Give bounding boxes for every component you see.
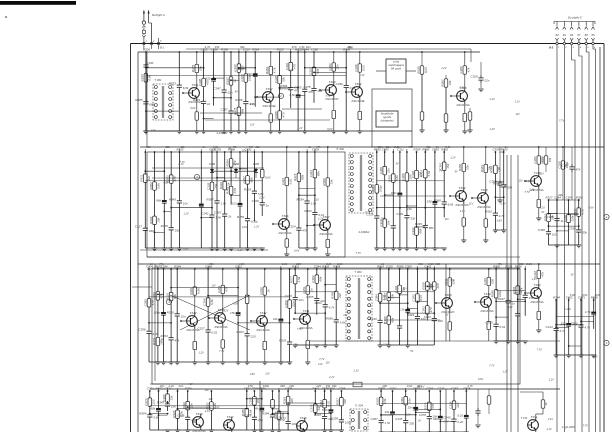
svg-text:C336: C336 <box>354 64 358 72</box>
svg-text:68k: 68k <box>156 199 161 203</box>
svg-text:33k: 33k <box>558 193 563 197</box>
svg-text:7,7V: 7,7V <box>151 129 156 132</box>
svg-text:4,7k: 4,7k <box>205 45 211 49</box>
svg-text:F_gd,1000: F_gd,1000 <box>562 425 575 429</box>
svg-text:R319: R319 <box>219 182 223 190</box>
svg-text:1,5k: 1,5k <box>311 202 317 206</box>
svg-text:C347: C347 <box>214 87 222 91</box>
svg-text:33k: 33k <box>410 216 415 220</box>
svg-text:T317: T317 <box>226 415 233 419</box>
svg-text:T 301: T 301 <box>154 78 162 82</box>
svg-text:2SC633A: 2SC633A <box>476 205 490 209</box>
svg-text:7,7V: 7,7V <box>325 95 330 98</box>
svg-text:10k: 10k <box>432 414 437 418</box>
svg-text:470: 470 <box>151 300 155 305</box>
svg-text:Rx/light A: Rx/light A <box>152 13 165 17</box>
svg-text:C340: C340 <box>240 74 244 82</box>
svg-text:5,6k: 5,6k <box>445 145 451 149</box>
svg-text:6,8k: 6,8k <box>197 288 201 294</box>
svg-text:R376: R376 <box>161 224 169 228</box>
svg-text:T309: T309 <box>458 186 465 190</box>
svg-text:33k: 33k <box>426 145 431 149</box>
svg-text:0,01: 0,01 <box>500 325 506 329</box>
svg-text:4,7k: 4,7k <box>273 67 277 73</box>
svg-text:68k: 68k <box>209 262 214 266</box>
svg-text:7,7V: 7,7V <box>449 280 454 283</box>
svg-text:C327: C327 <box>308 67 312 75</box>
svg-text:330: 330 <box>343 399 347 404</box>
svg-text:R364: R364 <box>161 334 169 338</box>
svg-text:1,1V: 1,1V <box>489 97 495 101</box>
svg-text:C376: C376 <box>310 404 314 412</box>
svg-text:R329: R329 <box>244 188 252 192</box>
svg-text:10n: 10n <box>160 384 165 388</box>
svg-text:0,01: 0,01 <box>526 262 532 266</box>
svg-text:5,6k: 5,6k <box>258 192 264 196</box>
svg-text:R364: R364 <box>252 48 259 52</box>
svg-text:64: 64 <box>555 33 559 37</box>
svg-text:C314: C314 <box>448 401 452 409</box>
svg-text:11V: 11V <box>406 413 411 416</box>
svg-text:10n: 10n <box>306 45 311 49</box>
svg-text:2,1V: 2,1V <box>531 278 537 281</box>
svg-text:22n: 22n <box>227 91 233 95</box>
svg-text:33k: 33k <box>332 384 337 388</box>
svg-text:1,2V: 1,2V <box>297 127 302 130</box>
svg-text:330: 330 <box>507 186 512 190</box>
svg-text:220: 220 <box>288 384 294 388</box>
svg-text:1,5k: 1,5k <box>213 145 219 149</box>
svg-text:C309: C309 <box>426 387 433 391</box>
svg-text:68k: 68k <box>254 406 259 410</box>
svg-text:66: 66 <box>570 33 574 37</box>
svg-text:1,5k: 1,5k <box>385 421 391 425</box>
svg-text:Tr 302: Tr 302 <box>336 147 344 151</box>
svg-text:2,1V: 2,1V <box>328 376 334 379</box>
svg-text:330: 330 <box>280 384 285 388</box>
svg-text:100p: 100p <box>160 338 164 345</box>
svg-text:C328: C328 <box>206 182 210 190</box>
svg-text:R367: R367 <box>440 79 444 87</box>
svg-text:5V: 5V <box>445 313 448 316</box>
svg-text:4,43MHz: 4,43MHz <box>216 131 228 135</box>
svg-text:1n: 1n <box>505 145 509 149</box>
svg-text:10n: 10n <box>255 145 260 149</box>
svg-text:1N60: 1N60 <box>209 162 216 166</box>
svg-text:2SC633A: 2SC633A <box>318 232 332 236</box>
svg-text:470: 470 <box>225 287 229 292</box>
svg-text:C383: C383 <box>217 286 221 294</box>
svg-text:5,6k: 5,6k <box>427 170 431 176</box>
svg-text:C301: C301 <box>396 212 404 216</box>
svg-text:11V: 11V <box>343 314 348 317</box>
svg-text:C343: C343 <box>411 227 415 235</box>
svg-text:1,2V: 1,2V <box>490 128 495 131</box>
svg-text:R383: R383 <box>149 182 153 190</box>
svg-text:2,1V: 2,1V <box>280 417 286 420</box>
svg-text:220: 220 <box>594 293 600 297</box>
svg-text:C335: C335 <box>486 321 494 325</box>
svg-text:1k: 1k <box>503 184 507 188</box>
svg-text:1,5k: 1,5k <box>289 93 295 97</box>
svg-text:2,2k: 2,2k <box>336 262 343 266</box>
svg-text:C336: C336 <box>274 76 278 84</box>
svg-text:15k: 15k <box>330 179 334 184</box>
svg-text:C388: C388 <box>563 214 567 222</box>
svg-text:11V: 11V <box>445 218 450 221</box>
svg-text:6,8k: 6,8k <box>183 86 189 90</box>
svg-text:4,43MHz: 4,43MHz <box>358 230 370 234</box>
svg-text:0,01: 0,01 <box>419 295 423 301</box>
svg-text:R363: R363 <box>282 397 286 405</box>
svg-text:220: 220 <box>436 283 440 289</box>
svg-text:T301: T301 <box>191 83 198 87</box>
svg-text:R329: R329 <box>279 339 287 343</box>
svg-text:22n: 22n <box>190 403 194 409</box>
svg-text:10k: 10k <box>156 217 160 222</box>
svg-text:2SC633A: 2SC633A <box>187 100 201 104</box>
svg-text:T307: T307 <box>322 215 329 219</box>
svg-text:R392: R392 <box>182 402 186 410</box>
svg-text:T312: T312 <box>259 311 266 315</box>
svg-text:R356: R356 <box>422 282 426 290</box>
svg-text:2SC633A: 2SC633A <box>277 231 291 235</box>
svg-text:15k: 15k <box>446 163 450 168</box>
svg-text:R386: R386 <box>235 98 243 102</box>
svg-text:33k: 33k <box>582 231 587 235</box>
svg-text:R392: R392 <box>149 216 153 224</box>
svg-text:C328: C328 <box>411 171 415 179</box>
svg-text:0,01: 0,01 <box>212 331 218 335</box>
svg-text:6,8k: 6,8k <box>148 74 152 80</box>
svg-text:T302: T302 <box>265 87 272 91</box>
svg-text:R386: R386 <box>490 290 494 298</box>
svg-text:7,7V: 7,7V <box>583 424 588 427</box>
svg-text:7,7V: 7,7V <box>537 349 542 352</box>
svg-text:0,6V: 0,6V <box>294 249 299 252</box>
svg-text:T303: T303 <box>328 80 335 84</box>
svg-text:C387: C387 <box>451 387 458 391</box>
svg-text:4,7k: 4,7k <box>560 329 566 333</box>
svg-text:1,5k: 1,5k <box>585 310 591 314</box>
svg-text:10k: 10k <box>273 317 278 321</box>
svg-text:68: 68 <box>585 33 589 37</box>
svg-text:1,2V: 1,2V <box>503 370 508 373</box>
svg-text:11V: 11V <box>383 343 388 346</box>
svg-text:65: 65 <box>591 33 595 37</box>
svg-text:C357: C357 <box>242 176 246 184</box>
svg-text:R326: R326 <box>172 410 176 418</box>
svg-text:2,1V: 2,1V <box>358 74 364 77</box>
svg-text:3V: 3V <box>570 274 573 277</box>
svg-text:0,01: 0,01 <box>582 293 588 297</box>
svg-text:C363: C363 <box>244 414 252 418</box>
svg-text:R306: R306 <box>185 387 192 391</box>
svg-text:220: 220 <box>315 384 321 388</box>
svg-text:5V: 5V <box>396 163 399 166</box>
svg-text:68k: 68k <box>429 226 434 230</box>
svg-text:C324: C324 <box>309 170 313 178</box>
svg-text:C302: C302 <box>422 306 426 314</box>
svg-text:C373: C373 <box>144 398 148 406</box>
svg-text:4,7k: 4,7k <box>584 326 590 330</box>
svg-text:0,01: 0,01 <box>362 65 366 71</box>
svg-text:R368: R368 <box>434 198 442 202</box>
svg-text:2,1V: 2,1V <box>525 180 531 183</box>
svg-text:T 151: T 151 <box>521 416 528 420</box>
svg-text:C385: C385 <box>143 299 147 307</box>
svg-text:330: 330 <box>427 200 432 204</box>
svg-text:47k: 47k <box>249 145 254 149</box>
svg-text:C367: C367 <box>561 163 569 167</box>
svg-text:R355: R355 <box>237 215 245 219</box>
svg-text:15k: 15k <box>529 296 534 300</box>
svg-text:2,1V: 2,1V <box>258 197 264 200</box>
svg-text:68k: 68k <box>149 102 154 106</box>
svg-text:7,7V: 7,7V <box>219 350 224 353</box>
svg-text:47k: 47k <box>160 293 164 298</box>
svg-text:2SC633A: 2SC633A <box>529 300 543 304</box>
svg-text:R390: R390 <box>221 48 228 52</box>
svg-text:R380: R380 <box>331 291 335 299</box>
svg-text:C343: C343 <box>443 416 451 420</box>
svg-text:100: 100 <box>382 384 387 388</box>
svg-text:R344: R344 <box>553 296 560 300</box>
svg-text:1,2V: 1,2V <box>199 352 204 355</box>
svg-text:10k: 10k <box>548 157 552 162</box>
svg-text:C327: C327 <box>383 293 387 301</box>
svg-text:0,6V: 0,6V <box>501 202 506 205</box>
svg-text:C355: C355 <box>306 295 314 299</box>
svg-text:11V: 11V <box>403 288 408 291</box>
svg-text:0,6V: 0,6V <box>508 306 513 309</box>
svg-text:R337: R337 <box>225 77 229 85</box>
svg-text:2,1V: 2,1V <box>204 410 210 413</box>
svg-text:C378: C378 <box>303 85 311 89</box>
svg-text:22n: 22n <box>416 384 422 388</box>
svg-text:0,6V: 0,6V <box>190 107 195 110</box>
svg-text:330: 330 <box>519 262 524 266</box>
svg-text:T 303: T 303 <box>354 270 362 274</box>
svg-text:68k: 68k <box>249 177 253 182</box>
svg-text:330: 330 <box>205 77 210 81</box>
svg-text:2,2k: 2,2k <box>393 145 400 149</box>
svg-text:C356: C356 <box>138 328 146 332</box>
svg-text:2SC403E: 2SC403E <box>350 99 365 103</box>
svg-text:C338: C338 <box>568 226 576 230</box>
svg-text:15k: 15k <box>230 311 235 315</box>
svg-text:R345: R345 <box>169 197 177 201</box>
svg-text:C389: C389 <box>459 66 463 74</box>
svg-text:3V: 3V <box>418 419 421 422</box>
svg-text:2,1V: 2,1V <box>547 418 553 421</box>
svg-text:10n: 10n <box>336 64 340 69</box>
svg-text:7,7V: 7,7V <box>365 211 370 214</box>
svg-text:2SC633A: 2SC633A <box>479 309 493 313</box>
svg-text:1N60: 1N60 <box>233 162 240 166</box>
svg-text:R350: R350 <box>576 196 583 200</box>
svg-text:22n: 22n <box>298 298 304 302</box>
svg-text:33k: 33k <box>391 294 395 299</box>
svg-text:C397: C397 <box>220 108 228 112</box>
svg-text:1,5k: 1,5k <box>297 276 301 282</box>
svg-text:1,5k: 1,5k <box>299 45 305 49</box>
svg-text:8-3: 8-3 <box>549 46 553 50</box>
svg-text:0,6V: 0,6V <box>164 181 169 184</box>
svg-text:C336: C336 <box>285 294 293 298</box>
svg-text:3V: 3V <box>190 383 193 386</box>
svg-text:Do płytki C: Do płytki C <box>568 16 583 20</box>
svg-text:C338: C338 <box>331 416 339 420</box>
svg-text:2SC403E: 2SC403E <box>261 104 276 108</box>
svg-text:330: 330 <box>149 229 154 233</box>
svg-text:6,8k: 6,8k <box>448 203 454 207</box>
svg-text:68k: 68k <box>319 276 323 281</box>
svg-text:100p: 100p <box>345 421 352 425</box>
svg-text:C313: C313 <box>140 74 144 82</box>
svg-text:R397: R397 <box>429 282 433 290</box>
svg-text:33k: 33k <box>281 77 285 82</box>
svg-text:0,6V: 0,6V <box>265 176 270 179</box>
svg-text:1,5k: 1,5k <box>239 262 245 266</box>
svg-text:2,1V: 2,1V <box>177 163 183 166</box>
svg-text:C326: C326 <box>177 414 185 418</box>
svg-text:68k: 68k <box>418 262 423 266</box>
svg-text:R319: R319 <box>420 170 424 178</box>
svg-text:0,6V: 0,6V <box>183 248 188 251</box>
svg-text:2,1V: 2,1V <box>353 370 359 373</box>
svg-text:2,2k: 2,2k <box>398 308 405 312</box>
svg-text:R369: R369 <box>490 165 494 173</box>
svg-text:C314: C314 <box>379 219 383 227</box>
svg-text:0,01: 0,01 <box>457 414 463 418</box>
svg-text:0,6V: 0,6V <box>588 207 593 210</box>
svg-text:100p: 100p <box>379 185 383 192</box>
svg-text:3V: 3V <box>541 211 544 214</box>
svg-text:T311: T311 <box>303 309 310 313</box>
svg-text:5,6k: 5,6k <box>210 299 214 305</box>
svg-text:100p: 100p <box>154 311 161 315</box>
svg-text:R337: R337 <box>498 297 506 301</box>
svg-text:470: 470 <box>292 45 297 49</box>
svg-text:7,7V: 7,7V <box>443 421 448 424</box>
svg-text:44M: 44M <box>347 46 353 50</box>
svg-text:C329: C329 <box>470 74 478 78</box>
svg-text:11V: 11V <box>499 151 504 154</box>
svg-text:C364: C364 <box>328 63 332 71</box>
svg-text:C354: C354 <box>566 196 573 200</box>
svg-text:(strojenie): (strojenie) <box>381 119 394 123</box>
svg-text:5,6k: 5,6k <box>156 183 160 189</box>
svg-text:2,1V: 2,1V <box>528 189 534 192</box>
svg-text:22n: 22n <box>246 72 252 76</box>
svg-text:1,2V: 1,2V <box>441 67 446 70</box>
svg-text:R386: R386 <box>326 316 334 320</box>
svg-text:R379: R379 <box>152 338 156 346</box>
svg-text:R365: R365 <box>135 98 143 102</box>
svg-text:10k: 10k <box>497 166 501 171</box>
svg-text:C384: C384 <box>374 294 378 302</box>
svg-text:11V: 11V <box>325 361 330 364</box>
svg-text:11V: 11V <box>518 180 523 183</box>
svg-text:2,2k: 2,2k <box>168 384 175 388</box>
svg-text:68k: 68k <box>317 171 321 176</box>
svg-text:0,01: 0,01 <box>391 191 397 195</box>
svg-text:0,01: 0,01 <box>428 262 434 266</box>
svg-text:C384: C384 <box>533 156 537 164</box>
svg-text:22n: 22n <box>199 66 203 72</box>
svg-text:1k: 1k <box>228 215 232 219</box>
svg-text:22n: 22n <box>291 301 295 307</box>
svg-text:470: 470 <box>408 145 413 149</box>
svg-text:0,6V: 0,6V <box>407 208 412 211</box>
svg-text:5V: 5V <box>410 350 413 353</box>
svg-text:7,7V: 7,7V <box>489 364 494 367</box>
svg-text:R327: R327 <box>546 196 553 200</box>
svg-text:11V: 11V <box>204 389 209 392</box>
svg-text:11V: 11V <box>469 203 474 206</box>
svg-text:68k: 68k <box>301 174 305 179</box>
svg-text:11V: 11V <box>516 113 521 116</box>
svg-text:R303: R303 <box>375 397 379 405</box>
svg-text:R301: R301 <box>189 287 193 295</box>
svg-text:T308: T308 <box>444 293 451 297</box>
svg-text:2,1V: 2,1V <box>548 379 554 382</box>
svg-text:C396: C396 <box>336 82 344 86</box>
svg-text:1k: 1k <box>233 79 237 83</box>
svg-text:C367: C367 <box>214 211 222 215</box>
svg-text:220: 220 <box>152 399 156 405</box>
svg-text:1,2V: 1,2V <box>592 355 597 358</box>
svg-text:C344: C344 <box>281 178 285 186</box>
svg-text:C375: C375 <box>233 107 237 115</box>
svg-text:100: 100 <box>491 279 495 284</box>
svg-text:R379: R379 <box>191 65 195 73</box>
svg-text:7,7V: 7,7V <box>319 358 324 361</box>
svg-text:C340: C340 <box>147 61 154 65</box>
svg-text:R320: R320 <box>277 48 284 52</box>
svg-text:0,6V: 0,6V <box>327 128 332 131</box>
svg-text:T318: T318 <box>299 416 306 420</box>
svg-text:330: 330 <box>409 421 414 425</box>
svg-text:10k: 10k <box>387 220 391 225</box>
svg-text:68k: 68k <box>378 145 383 149</box>
svg-text:4,7k: 4,7k <box>329 305 335 309</box>
svg-text:2: 2 <box>279 94 282 98</box>
svg-text:Tr 304: Tr 304 <box>355 404 363 408</box>
svg-text:11V: 11V <box>265 372 270 375</box>
svg-text:0,01: 0,01 <box>289 178 293 184</box>
svg-text:R399: R399 <box>139 411 147 415</box>
svg-text:R352: R352 <box>265 67 269 75</box>
svg-text:5,6k: 5,6k <box>570 293 576 297</box>
svg-text:C342: C342 <box>201 212 209 216</box>
svg-text:4,7k: 4,7k <box>581 209 585 215</box>
svg-text:R304: R304 <box>225 159 229 167</box>
svg-text:C349: C349 <box>437 387 444 391</box>
svg-text:100: 100 <box>292 422 297 426</box>
svg-text:C333: C333 <box>259 287 263 295</box>
svg-text:R358: R358 <box>458 164 462 172</box>
svg-text:T304: T304 <box>354 82 361 86</box>
svg-text:R367: R367 <box>206 197 214 201</box>
svg-text:R380: R380 <box>322 178 326 186</box>
svg-text:1k: 1k <box>381 262 385 266</box>
svg-text:C394: C394 <box>152 292 156 300</box>
svg-text:T151: T151 <box>530 415 537 419</box>
svg-text:68k: 68k <box>418 228 422 233</box>
svg-text:470: 470 <box>316 68 320 73</box>
